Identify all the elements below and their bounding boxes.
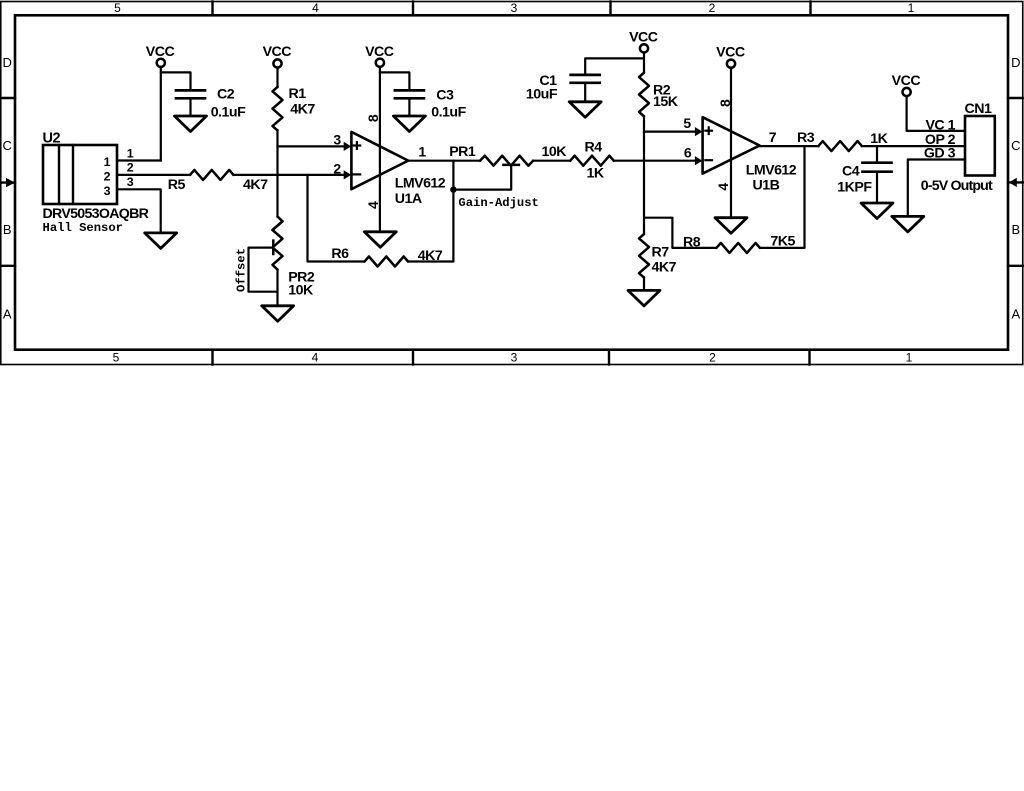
wire R2 down through pins bbox=[643, 116, 645, 234]
op-amp U1B LMV612 triangle bbox=[703, 117, 760, 173]
svg-text:VC 1: VC 1 bbox=[925, 117, 955, 133]
ground below C1 bbox=[569, 102, 601, 118]
capacitor C3 0.1uF bbox=[395, 89, 424, 92]
svg-text:4K7: 4K7 bbox=[243, 177, 268, 193]
wire R3 to CN1 OP pin bbox=[862, 145, 965, 147]
svg-text:2: 2 bbox=[104, 170, 111, 184]
svg-text:3: 3 bbox=[511, 1, 518, 15]
svg-text:PR1: PR1 bbox=[449, 144, 476, 160]
U1B power wire pin8 to pin4 bbox=[730, 68, 732, 217]
wire U1B output to R3 bbox=[760, 145, 819, 147]
wire down to C4 bbox=[876, 146, 878, 163]
resistor R7 4K7 bbox=[639, 234, 649, 278]
wire branch to C2 bbox=[161, 72, 191, 90]
ground below R7 bbox=[628, 290, 660, 306]
svg-text:1KPF: 1KPF bbox=[837, 179, 872, 195]
wire PR2 to ground bbox=[276, 270, 278, 306]
svg-text:C2: C2 bbox=[217, 86, 235, 102]
svg-text:4: 4 bbox=[365, 201, 381, 209]
left border row divider with sheet arrow bbox=[1, 181, 15, 183]
svg-text:B: B bbox=[3, 222, 12, 237]
svg-text:R3: R3 bbox=[797, 130, 815, 146]
svg-text:U1A: U1A bbox=[395, 191, 422, 207]
svg-text:CN1: CN1 bbox=[965, 101, 992, 117]
ground below U1B bbox=[715, 218, 747, 234]
PR2 offset loop wiring bbox=[249, 248, 278, 292]
svg-text:R8: R8 bbox=[683, 234, 701, 250]
svg-text:8: 8 bbox=[717, 99, 733, 107]
wire VCC down to pin1 node bbox=[160, 67, 162, 160]
svg-text:10uF: 10uF bbox=[526, 87, 558, 103]
svg-text:VCC: VCC bbox=[716, 44, 745, 60]
U1B plus minus markers bbox=[705, 130, 712, 132]
wire VCC to R1 bbox=[276, 68, 278, 87]
svg-text:C3: C3 bbox=[436, 87, 454, 103]
svg-text:R7: R7 bbox=[652, 244, 670, 260]
wire PR1 to R4 bbox=[533, 160, 570, 162]
wire U2 pin1 to VCC rail bbox=[117, 159, 161, 161]
svg-text:R1: R1 bbox=[289, 86, 307, 102]
svg-text:LMV612: LMV612 bbox=[746, 162, 797, 178]
ground below C4 bbox=[861, 203, 893, 219]
svg-text:3: 3 bbox=[333, 132, 341, 148]
svg-text:D: D bbox=[3, 55, 12, 70]
wire R6 to junction bbox=[408, 193, 453, 262]
svg-text:C: C bbox=[3, 138, 12, 153]
resistor R6 4K7 bbox=[365, 257, 409, 267]
svg-text:10K: 10K bbox=[288, 283, 314, 299]
op-amp U1A LMV612 triangle bbox=[351, 132, 408, 189]
right border row dividers bbox=[1008, 97, 1023, 99]
ground below C2 bbox=[175, 116, 207, 132]
svg-text:U1B: U1B bbox=[753, 177, 780, 193]
svg-text:4: 4 bbox=[715, 183, 731, 191]
wire output node down to gain junction bbox=[452, 161, 454, 190]
svg-text:1K: 1K bbox=[587, 165, 605, 181]
junction node dot bbox=[450, 186, 456, 192]
svg-text:0-5V Output: 0-5V Output bbox=[921, 178, 993, 194]
svg-text:Offset: Offset bbox=[235, 248, 249, 292]
svg-text:A: A bbox=[3, 306, 12, 321]
svg-text:Hall Sensor: Hall Sensor bbox=[43, 221, 123, 235]
wire R1 to PR2 bbox=[276, 130, 278, 216]
trimmer PR1 zigzag bbox=[480, 156, 533, 166]
svg-text:3: 3 bbox=[104, 184, 111, 198]
svg-text:1: 1 bbox=[127, 146, 134, 160]
svg-text:1: 1 bbox=[908, 1, 915, 15]
svg-text:R5: R5 bbox=[168, 177, 186, 193]
svg-text:10K: 10K bbox=[542, 144, 568, 160]
R6 branch from pin2 wire bbox=[308, 175, 365, 262]
svg-text:0.1uF: 0.1uF bbox=[211, 104, 246, 120]
svg-text:2: 2 bbox=[127, 161, 134, 175]
right border row divider with sheet arrow bbox=[1008, 181, 1023, 183]
resistor R3 1K bbox=[818, 141, 862, 151]
svg-text:1: 1 bbox=[104, 155, 111, 169]
PR2 wiper bar bbox=[272, 241, 275, 254]
svg-text:A: A bbox=[1011, 306, 1020, 321]
wire VCC down to R2 bbox=[643, 53, 645, 73]
svg-text:3: 3 bbox=[511, 351, 518, 365]
top border zone dividers bbox=[211, 2, 213, 16]
svg-text:U2: U2 bbox=[43, 130, 61, 146]
wire branch to C3 bbox=[380, 72, 410, 90]
U1A plus minus markers bbox=[354, 144, 361, 146]
wire branch to C1 bbox=[585, 58, 644, 75]
svg-text:0.1uF: 0.1uF bbox=[431, 105, 466, 121]
svg-text:2: 2 bbox=[709, 351, 716, 365]
svg-text:R4: R4 bbox=[585, 139, 603, 155]
wire VCC to CN1 VC pin bbox=[907, 97, 965, 131]
capacitor C4 1KPF bbox=[863, 161, 892, 164]
ground below PR2 bbox=[262, 306, 294, 322]
resistor R8 7K5 bbox=[716, 243, 760, 253]
svg-text:2: 2 bbox=[333, 161, 341, 177]
wire R7 top node to R8 bbox=[644, 218, 716, 248]
ground below U2 pin3 bbox=[145, 233, 177, 249]
wire CN1 GD pin to ground bbox=[908, 160, 965, 217]
IC U2 DRV5053 body bbox=[43, 145, 117, 204]
resistor R4 1K bbox=[570, 156, 614, 166]
wire R4 to U1B pin6 bbox=[614, 160, 697, 162]
svg-text:3: 3 bbox=[127, 175, 134, 189]
svg-text:4K7: 4K7 bbox=[652, 259, 677, 275]
svg-text:5: 5 bbox=[114, 1, 121, 15]
svg-text:1: 1 bbox=[906, 351, 913, 365]
svg-text:1: 1 bbox=[418, 143, 426, 159]
svg-text:5: 5 bbox=[113, 351, 120, 365]
PR1 wiper bar and wire bbox=[503, 164, 519, 167]
svg-text:4: 4 bbox=[312, 351, 319, 365]
wire to U1A pin3 bbox=[278, 145, 346, 147]
svg-text:C: C bbox=[1011, 138, 1020, 153]
wire R5 to U1A pin2 bbox=[234, 174, 346, 176]
svg-text:2: 2 bbox=[709, 1, 716, 15]
resistor R2 15K bbox=[639, 73, 649, 116]
resistor R1 4K7 bbox=[273, 87, 283, 130]
capacitor C1 10uF bbox=[571, 74, 600, 77]
svg-text:VCC: VCC bbox=[263, 44, 292, 60]
svg-text:4K7: 4K7 bbox=[290, 102, 315, 118]
svg-text:C4: C4 bbox=[842, 163, 860, 179]
resistor R5 4K7 bbox=[190, 170, 234, 180]
svg-text:5: 5 bbox=[683, 115, 691, 131]
svg-text:D: D bbox=[1011, 55, 1020, 70]
capacitor C2 0.1uF bbox=[176, 89, 205, 92]
svg-text:GD 3: GD 3 bbox=[924, 146, 956, 162]
svg-text:4: 4 bbox=[312, 1, 319, 15]
trimmer PR2 10K bbox=[273, 217, 283, 231]
wire R8 to feedback riser bbox=[760, 146, 805, 248]
svg-text:8: 8 bbox=[365, 114, 381, 122]
connector CN1 body bbox=[965, 116, 995, 176]
wire to U1B pin5 bbox=[644, 131, 697, 133]
wire U1A output to PR1 bbox=[408, 160, 480, 162]
wire R7 to ground bbox=[643, 278, 645, 291]
svg-text:B: B bbox=[1011, 222, 1020, 237]
svg-text:7: 7 bbox=[769, 129, 777, 145]
svg-text:DRV5053OAQBR: DRV5053OAQBR bbox=[43, 206, 149, 222]
svg-text:Gain-Adjust: Gain-Adjust bbox=[458, 196, 538, 210]
ground below C3 bbox=[393, 116, 425, 132]
sheet inner border bbox=[15, 15, 1008, 349]
ground below CN1 GD bbox=[892, 216, 924, 232]
svg-text:15K: 15K bbox=[653, 94, 679, 110]
wire U2 pin2 out bbox=[117, 174, 190, 176]
sheet outer border bbox=[1, 2, 1023, 365]
svg-text:6: 6 bbox=[684, 144, 692, 160]
wire U2 pin3 to ground bbox=[117, 189, 161, 233]
svg-text:LMV612: LMV612 bbox=[395, 176, 446, 192]
svg-text:1K: 1K bbox=[870, 131, 888, 147]
svg-text:R6: R6 bbox=[331, 246, 349, 262]
bottom border zone dividers bbox=[211, 350, 213, 365]
left border row dividers bbox=[1, 97, 15, 99]
ground below U1A bbox=[364, 232, 396, 248]
